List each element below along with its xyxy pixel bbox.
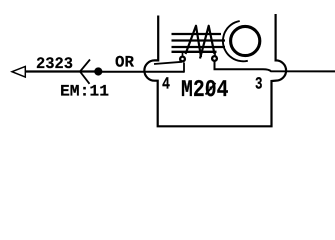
svg-text:OR: OR [115,54,134,72]
off-page connector arrow [12,66,25,77]
svg-text:EM:11: EM:11 [60,83,109,101]
svg-text:M204: M204 [181,77,229,104]
splice dot EM:11 [94,67,102,75]
wire 2323 (arrow to splice) [26,70,95,72]
lead from pin 4 to terminal 1 [154,62,182,64]
slash of zero in M204 [206,83,216,95]
lead from terminal 2 to pin 3 and wire out to right edge [215,61,335,71]
svg-text:2323: 2323 [36,55,73,73]
component box M204 outline with connector bumps (pins 4 and 3) [144,14,286,126]
motor M204 circle [231,26,260,55]
wire (splice to connector pin 4) [98,71,184,73]
resistor element triangle 1 [186,26,202,57]
terminal 2 of resistor element [212,56,217,61]
motor housing outer arc [223,21,248,61]
splice bracket [80,60,90,84]
svg-text:3: 3 [255,76,263,95]
svg-text:4: 4 [162,76,170,95]
resistor element triangle 2 [200,26,215,59]
resistor R (blower resistor) winding lines [172,33,222,35]
terminal 1 of resistor element [180,57,185,62]
